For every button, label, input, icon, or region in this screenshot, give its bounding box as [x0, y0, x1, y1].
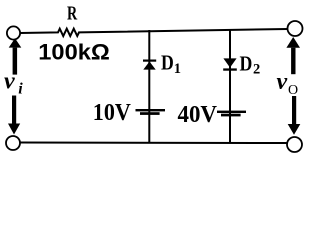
svg-text:10V: 10V: [93, 99, 131, 126]
arrow vo up: [286, 37, 300, 74]
svg-text:2: 2: [253, 62, 260, 78]
wire D2 branch vertical: [229, 29, 231, 143]
arrow vi down: [8, 96, 20, 135]
terminal circle top-right: [288, 21, 303, 36]
diode D1 label D1: [161, 53, 181, 78]
svg-text:R: R: [67, 3, 77, 25]
svg-text:1: 1: [174, 61, 181, 77]
wire D1 branch vertical: [148, 30, 150, 143]
wire top rail with resistor zigzag: [20, 29, 288, 36]
svg-text:100kΩ: 100kΩ: [38, 40, 109, 65]
svg-text:v: v: [277, 69, 288, 95]
svg-text:D: D: [240, 54, 253, 76]
node label vi: [4, 69, 23, 98]
diode D1 (pointing up): [143, 60, 156, 70]
diode D2 (pointing down): [223, 58, 237, 70]
battery V2 40V plates: [217, 111, 246, 117]
terminal circle bottom-left: [6, 136, 20, 150]
arrow vi up: [9, 38, 22, 74]
svg-text:v: v: [4, 69, 15, 95]
terminal circle top-left: [7, 26, 20, 39]
svg-text:O: O: [288, 83, 298, 98]
node label vo: [277, 69, 299, 98]
svg-text:i: i: [18, 81, 23, 98]
diode D2 label D2: [240, 54, 261, 78]
terminal circle bottom-right: [287, 137, 302, 152]
svg-text:40V: 40V: [178, 101, 218, 128]
wire bottom rail: [20, 142, 287, 145]
svg-text:D: D: [161, 53, 174, 75]
arrow vo down: [288, 96, 301, 135]
battery V1 10V plates: [136, 109, 166, 115]
